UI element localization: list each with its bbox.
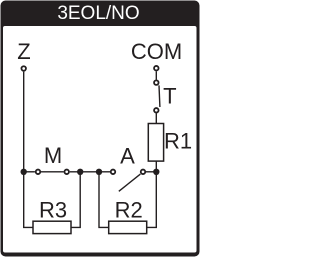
svg-text:R1: R1: [164, 128, 192, 153]
svg-text:M: M: [44, 143, 62, 168]
svg-text:A: A: [120, 144, 135, 169]
svg-text:T: T: [163, 84, 176, 109]
svg-text:R3: R3: [39, 197, 67, 222]
svg-text:Z: Z: [17, 39, 30, 64]
svg-text:COM: COM: [131, 39, 182, 64]
svg-text:R2: R2: [115, 197, 143, 222]
svg-text:3EOL/NO: 3EOL/NO: [57, 3, 139, 24]
